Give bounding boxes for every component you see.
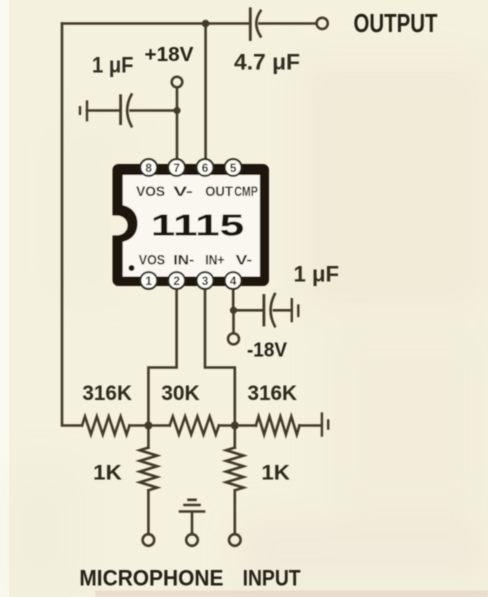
wire pin3 branch down-right to node B	[205, 290, 235, 422]
terminal -18V	[228, 333, 239, 344]
wire junction to C3	[234, 309, 263, 312]
svg-text:VOS: VOS	[136, 184, 165, 199]
wire node A down to R4	[147, 426, 150, 448]
svg-text:1K: 1K	[93, 462, 122, 485]
ground bar middle	[185, 504, 200, 507]
wire R5 to mic terminal 3	[234, 490, 237, 534]
node +18V junction	[173, 107, 180, 114]
right cell short bar	[327, 421, 329, 429]
right cell tall bar	[321, 414, 323, 436]
svg-text:4: 4	[230, 274, 237, 288]
svg-text:V-: V-	[173, 184, 193, 199]
svg-text:V-: V-	[236, 253, 253, 268]
resistor R2 30K zigzag	[170, 417, 219, 435]
ground bar wide	[180, 510, 204, 513]
capacitor C1 straight plate	[119, 96, 122, 124]
svg-text:+18V: +18V	[145, 43, 194, 66]
wire R1 to node A	[130, 424, 149, 427]
svg-text:2: 2	[173, 274, 180, 288]
wire C3 to cell	[274, 309, 291, 312]
svg-text:1 μF: 1 μF	[294, 262, 340, 287]
wire top rail left segment	[62, 22, 249, 25]
svg-text:1: 1	[145, 274, 152, 288]
capacitor C3 right cell tall bar	[291, 299, 293, 321]
svg-text:7: 7	[173, 161, 180, 175]
wire C1 right lead to junction	[131, 109, 175, 112]
pin 6	[197, 159, 214, 176]
wire R3 to right cell	[300, 424, 321, 427]
wire node B down to R5	[234, 426, 237, 448]
ground bar small	[189, 498, 196, 501]
notch bulge	[117, 205, 138, 243]
pin 3	[197, 272, 214, 289]
svg-text:IN-: IN-	[173, 253, 194, 268]
svg-text:1K: 1K	[261, 462, 290, 485]
node top rail junction	[202, 20, 210, 28]
wire junction to -18V terminal	[232, 310, 235, 333]
svg-text:3: 3	[202, 274, 209, 288]
pin 5	[225, 159, 242, 176]
wire pin2 branch down-left to node A	[148, 290, 176, 422]
wire node A to R2	[148, 424, 169, 427]
wire ground to mic terminal 2	[191, 513, 194, 535]
pin1 index dot	[129, 265, 135, 271]
wire pin6 to top rail	[204, 24, 207, 159]
node pin4 junction	[230, 307, 237, 314]
capacitor C3 right cell short bar	[297, 306, 299, 316]
pin 2	[168, 272, 185, 289]
op-amp U1 1115 package body	[110, 164, 269, 286]
terminal +18V	[172, 77, 183, 88]
wire R4 to mic terminal 1	[147, 490, 150, 534]
svg-text:VOS: VOS	[139, 253, 165, 268]
capacitor C3 1uF straight plate	[262, 296, 265, 326]
wire pin4 down to junction	[232, 290, 235, 311]
capacitor C2 4.7uF straight plate	[249, 9, 252, 40]
svg-text:6: 6	[202, 161, 209, 175]
svg-text:INPUT: INPUT	[243, 566, 301, 591]
pin 8	[140, 159, 157, 176]
pin 4	[225, 272, 242, 289]
svg-text:OUT: OUT	[205, 184, 233, 199]
pin 7	[168, 159, 185, 176]
wire R2 to node B	[219, 424, 235, 427]
resistor R4 1K zigzag	[140, 448, 157, 491]
terminal mic input 2 (ground)	[186, 534, 198, 546]
svg-text:1 μF: 1 μF	[92, 53, 134, 78]
pin 1	[140, 272, 157, 289]
svg-text:MICROPHONE: MICROPHONE	[79, 566, 223, 591]
svg-text:IN+: IN+	[205, 253, 224, 268]
terminal mic input 1	[143, 534, 155, 546]
wire +18V terminal to pin 7	[176, 87, 179, 159]
svg-text:4.7 μF: 4.7 μF	[234, 50, 300, 75]
terminal mic input 3	[229, 534, 241, 546]
resistor R3 316K zigzag	[256, 417, 300, 435]
svg-text:30K: 30K	[161, 382, 200, 405]
resistor R5 1K zigzag	[226, 448, 243, 491]
svg-text:5: 5	[230, 161, 237, 175]
capacitor C1 1uF left cell short bar	[79, 107, 81, 114]
svg-text:1115: 1115	[151, 209, 245, 243]
svg-text:CMP: CMP	[234, 184, 258, 199]
wire node B to R3	[235, 424, 256, 427]
wire top rail right segment to output terminal	[260, 22, 317, 25]
resistor R1 316K zigzag	[82, 417, 130, 435]
svg-text:316K: 316K	[248, 382, 298, 405]
capacitor C2 curved plate	[256, 11, 260, 37]
capacitor C3 curved plate	[271, 294, 275, 326]
svg-text:OUTPUT: OUTPUT	[354, 8, 438, 38]
wire left rail down to resistor row	[62, 24, 82, 426]
svg-text:-18V: -18V	[247, 339, 287, 362]
svg-text:8: 8	[145, 161, 152, 175]
capacitor C1 1uF left cell tall bar	[86, 102, 88, 121]
terminal OUTPUT	[317, 18, 328, 29]
svg-text:316K: 316K	[82, 382, 131, 405]
capacitor C1 curved plate	[127, 95, 131, 127]
node A junction	[144, 422, 152, 430]
wire C1 left lead	[87, 109, 119, 112]
node B junction	[231, 422, 239, 430]
